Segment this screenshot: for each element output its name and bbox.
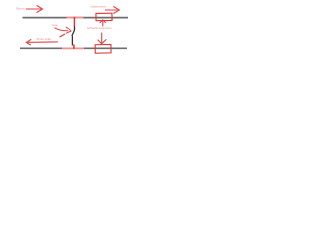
arrow: pointing at switch gap (55, 27, 71, 37)
switch S (open blade) (72, 27, 75, 46)
resistor R2 (red box on bottom rail) (95, 44, 111, 53)
svg-text:Strom: Strom (16, 7, 25, 11)
svg-text:aus: aus (52, 24, 58, 27)
svg-text:Strom sinkt: Strom sinkt (36, 37, 51, 41)
arrow: up into resistor R1 (100, 20, 105, 26)
arrow: down into resistor R2 (98, 33, 106, 44)
arrow: induction current (top right) (105, 7, 119, 14)
wire: red-marked segment of bottom rail (62, 47, 84, 49)
wire: red drop from top rail to switch (73, 17, 75, 27)
arrow: left (collapsing current) (26, 40, 57, 45)
resistor R1 (red box on top rail) (96, 13, 112, 21)
wire: red-marked segment of top rail (67, 17, 84, 19)
arrow: top-left current direction (26, 6, 42, 13)
wire: bottom rail (20, 47, 127, 49)
svg-text:Schwacher Gegenstrom: Schwacher Gegenstrom (87, 26, 112, 30)
wire: top rail (23, 17, 129, 19)
node: junction of switch wire with bottom rail (73, 45, 75, 49)
svg-text:Induktionsstrom: Induktionsstrom (91, 5, 108, 9)
